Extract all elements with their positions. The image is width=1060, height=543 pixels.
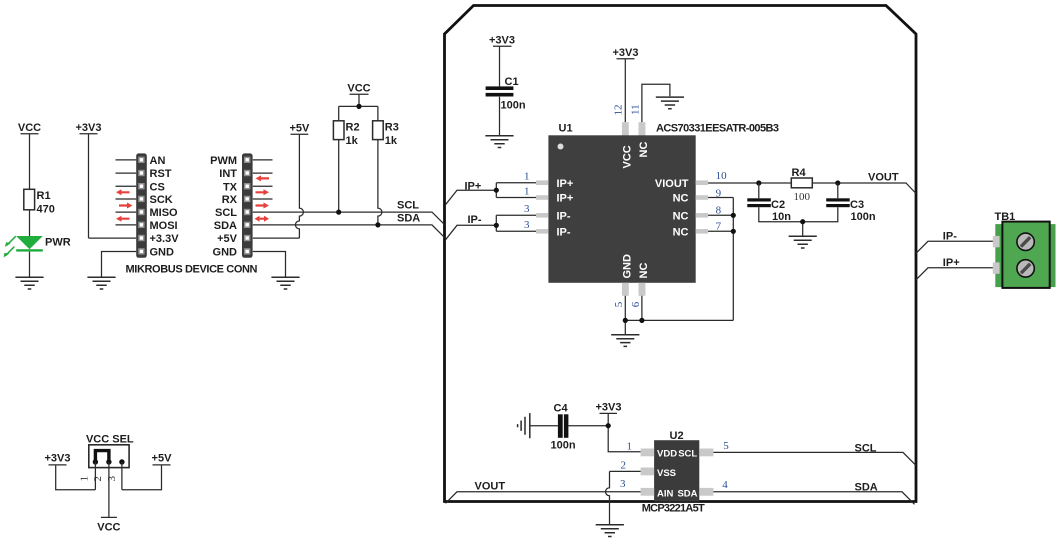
svg-text:+3.3V: +3.3V bbox=[150, 233, 180, 245]
svg-text:1: 1 bbox=[524, 171, 530, 183]
svg-text:C2: C2 bbox=[771, 199, 785, 211]
svg-text:1k: 1k bbox=[346, 135, 359, 147]
svg-text:SDA: SDA bbox=[855, 482, 878, 494]
svg-text:VCC: VCC bbox=[622, 145, 634, 168]
svg-text:VSS: VSS bbox=[657, 468, 676, 479]
svg-text:+3V3: +3V3 bbox=[489, 35, 515, 47]
svg-text:+3V3: +3V3 bbox=[45, 452, 71, 464]
svg-text:AIN: AIN bbox=[657, 489, 674, 500]
svg-text:NC: NC bbox=[673, 226, 689, 238]
svg-text:NC: NC bbox=[673, 210, 689, 222]
svg-text:SDA: SDA bbox=[677, 489, 697, 500]
svg-text:IP-: IP- bbox=[557, 210, 571, 222]
svg-text:MCP3221A5T: MCP3221A5T bbox=[642, 503, 705, 515]
svg-text:VCC: VCC bbox=[347, 83, 370, 95]
svg-text:GND: GND bbox=[150, 247, 175, 259]
svg-text:3: 3 bbox=[106, 476, 118, 482]
svg-text:+3V3: +3V3 bbox=[76, 122, 102, 134]
svg-text:3: 3 bbox=[620, 478, 626, 490]
svg-text:5: 5 bbox=[723, 440, 729, 452]
svg-text:MIKROBUS DEVICE CONN: MIKROBUS DEVICE CONN bbox=[126, 264, 258, 276]
svg-text:VCC: VCC bbox=[97, 521, 120, 533]
svg-text:VOUT: VOUT bbox=[475, 481, 506, 493]
svg-text:1: 1 bbox=[524, 185, 530, 197]
svg-text:TX: TX bbox=[223, 181, 238, 193]
svg-text:MISO: MISO bbox=[150, 207, 179, 219]
svg-text:SCK: SCK bbox=[150, 194, 173, 206]
svg-text:U1: U1 bbox=[559, 123, 573, 135]
svg-text:GND: GND bbox=[213, 247, 238, 259]
svg-text:100: 100 bbox=[794, 191, 811, 203]
svg-text:RX: RX bbox=[222, 194, 238, 206]
svg-text:R1: R1 bbox=[37, 190, 51, 202]
svg-text:SCL: SCL bbox=[397, 200, 419, 212]
svg-text:C1: C1 bbox=[505, 76, 519, 88]
svg-text:INT: INT bbox=[219, 168, 237, 180]
svg-text:5: 5 bbox=[613, 301, 625, 307]
svg-text:SCL: SCL bbox=[215, 207, 237, 219]
svg-text:VCC: VCC bbox=[18, 122, 41, 134]
svg-text:AN: AN bbox=[150, 155, 166, 167]
svg-text:R4: R4 bbox=[792, 167, 807, 179]
svg-text:+5V: +5V bbox=[217, 233, 238, 245]
svg-text:1: 1 bbox=[627, 441, 633, 453]
svg-text:VIOUT: VIOUT bbox=[655, 178, 689, 190]
svg-text:+3V3: +3V3 bbox=[596, 402, 622, 414]
svg-text:IP-: IP- bbox=[557, 226, 571, 238]
svg-text:MOSI: MOSI bbox=[150, 220, 178, 232]
svg-text:3: 3 bbox=[524, 219, 530, 231]
svg-text:SCL: SCL bbox=[678, 449, 697, 460]
svg-text:NC: NC bbox=[638, 263, 650, 279]
svg-text:2: 2 bbox=[621, 459, 627, 471]
svg-text:GND: GND bbox=[622, 254, 634, 279]
svg-text:VDD: VDD bbox=[657, 449, 677, 460]
svg-text:ACS70331EESATR-005B3: ACS70331EESATR-005B3 bbox=[656, 123, 779, 135]
svg-text:+5V: +5V bbox=[289, 123, 310, 135]
svg-text:3: 3 bbox=[524, 203, 530, 215]
svg-text:100n: 100n bbox=[851, 211, 876, 223]
svg-text:SDA: SDA bbox=[397, 213, 420, 225]
svg-text:2: 2 bbox=[92, 476, 104, 482]
svg-text:VCC SEL: VCC SEL bbox=[86, 434, 134, 446]
svg-text:10n: 10n bbox=[772, 211, 791, 223]
svg-text:R2: R2 bbox=[346, 122, 360, 134]
svg-text:IP+: IP+ bbox=[943, 257, 960, 269]
svg-text:IP+: IP+ bbox=[465, 181, 482, 193]
svg-text:10: 10 bbox=[716, 170, 728, 182]
svg-text:100n: 100n bbox=[501, 100, 526, 112]
svg-text:CS: CS bbox=[150, 181, 165, 193]
svg-text:+3V3: +3V3 bbox=[613, 47, 639, 59]
svg-text:C4: C4 bbox=[554, 403, 569, 415]
svg-text:SDA: SDA bbox=[214, 220, 237, 232]
svg-text:IP+: IP+ bbox=[557, 193, 574, 205]
svg-text:PWR: PWR bbox=[45, 237, 71, 249]
svg-text:R3: R3 bbox=[385, 122, 399, 134]
svg-text:IP-: IP- bbox=[468, 214, 482, 226]
svg-text:6: 6 bbox=[630, 301, 642, 307]
svg-text:IP-: IP- bbox=[943, 231, 957, 243]
svg-text:1: 1 bbox=[79, 476, 91, 482]
svg-text:C3: C3 bbox=[850, 199, 864, 211]
svg-text:RST: RST bbox=[150, 168, 172, 180]
svg-text:NC: NC bbox=[638, 142, 650, 158]
svg-text:SCL: SCL bbox=[855, 443, 877, 455]
svg-text:4: 4 bbox=[722, 479, 728, 491]
svg-text:PWM: PWM bbox=[210, 155, 237, 167]
svg-text:11: 11 bbox=[629, 104, 641, 115]
svg-text:+5V: +5V bbox=[152, 452, 173, 464]
svg-text:VOUT: VOUT bbox=[868, 172, 899, 184]
svg-text:470: 470 bbox=[37, 204, 55, 216]
svg-text:NC: NC bbox=[673, 193, 689, 205]
svg-text:12: 12 bbox=[612, 105, 624, 116]
svg-text:IP+: IP+ bbox=[557, 178, 574, 190]
svg-text:1k: 1k bbox=[385, 135, 398, 147]
svg-text:100n: 100n bbox=[551, 440, 576, 452]
